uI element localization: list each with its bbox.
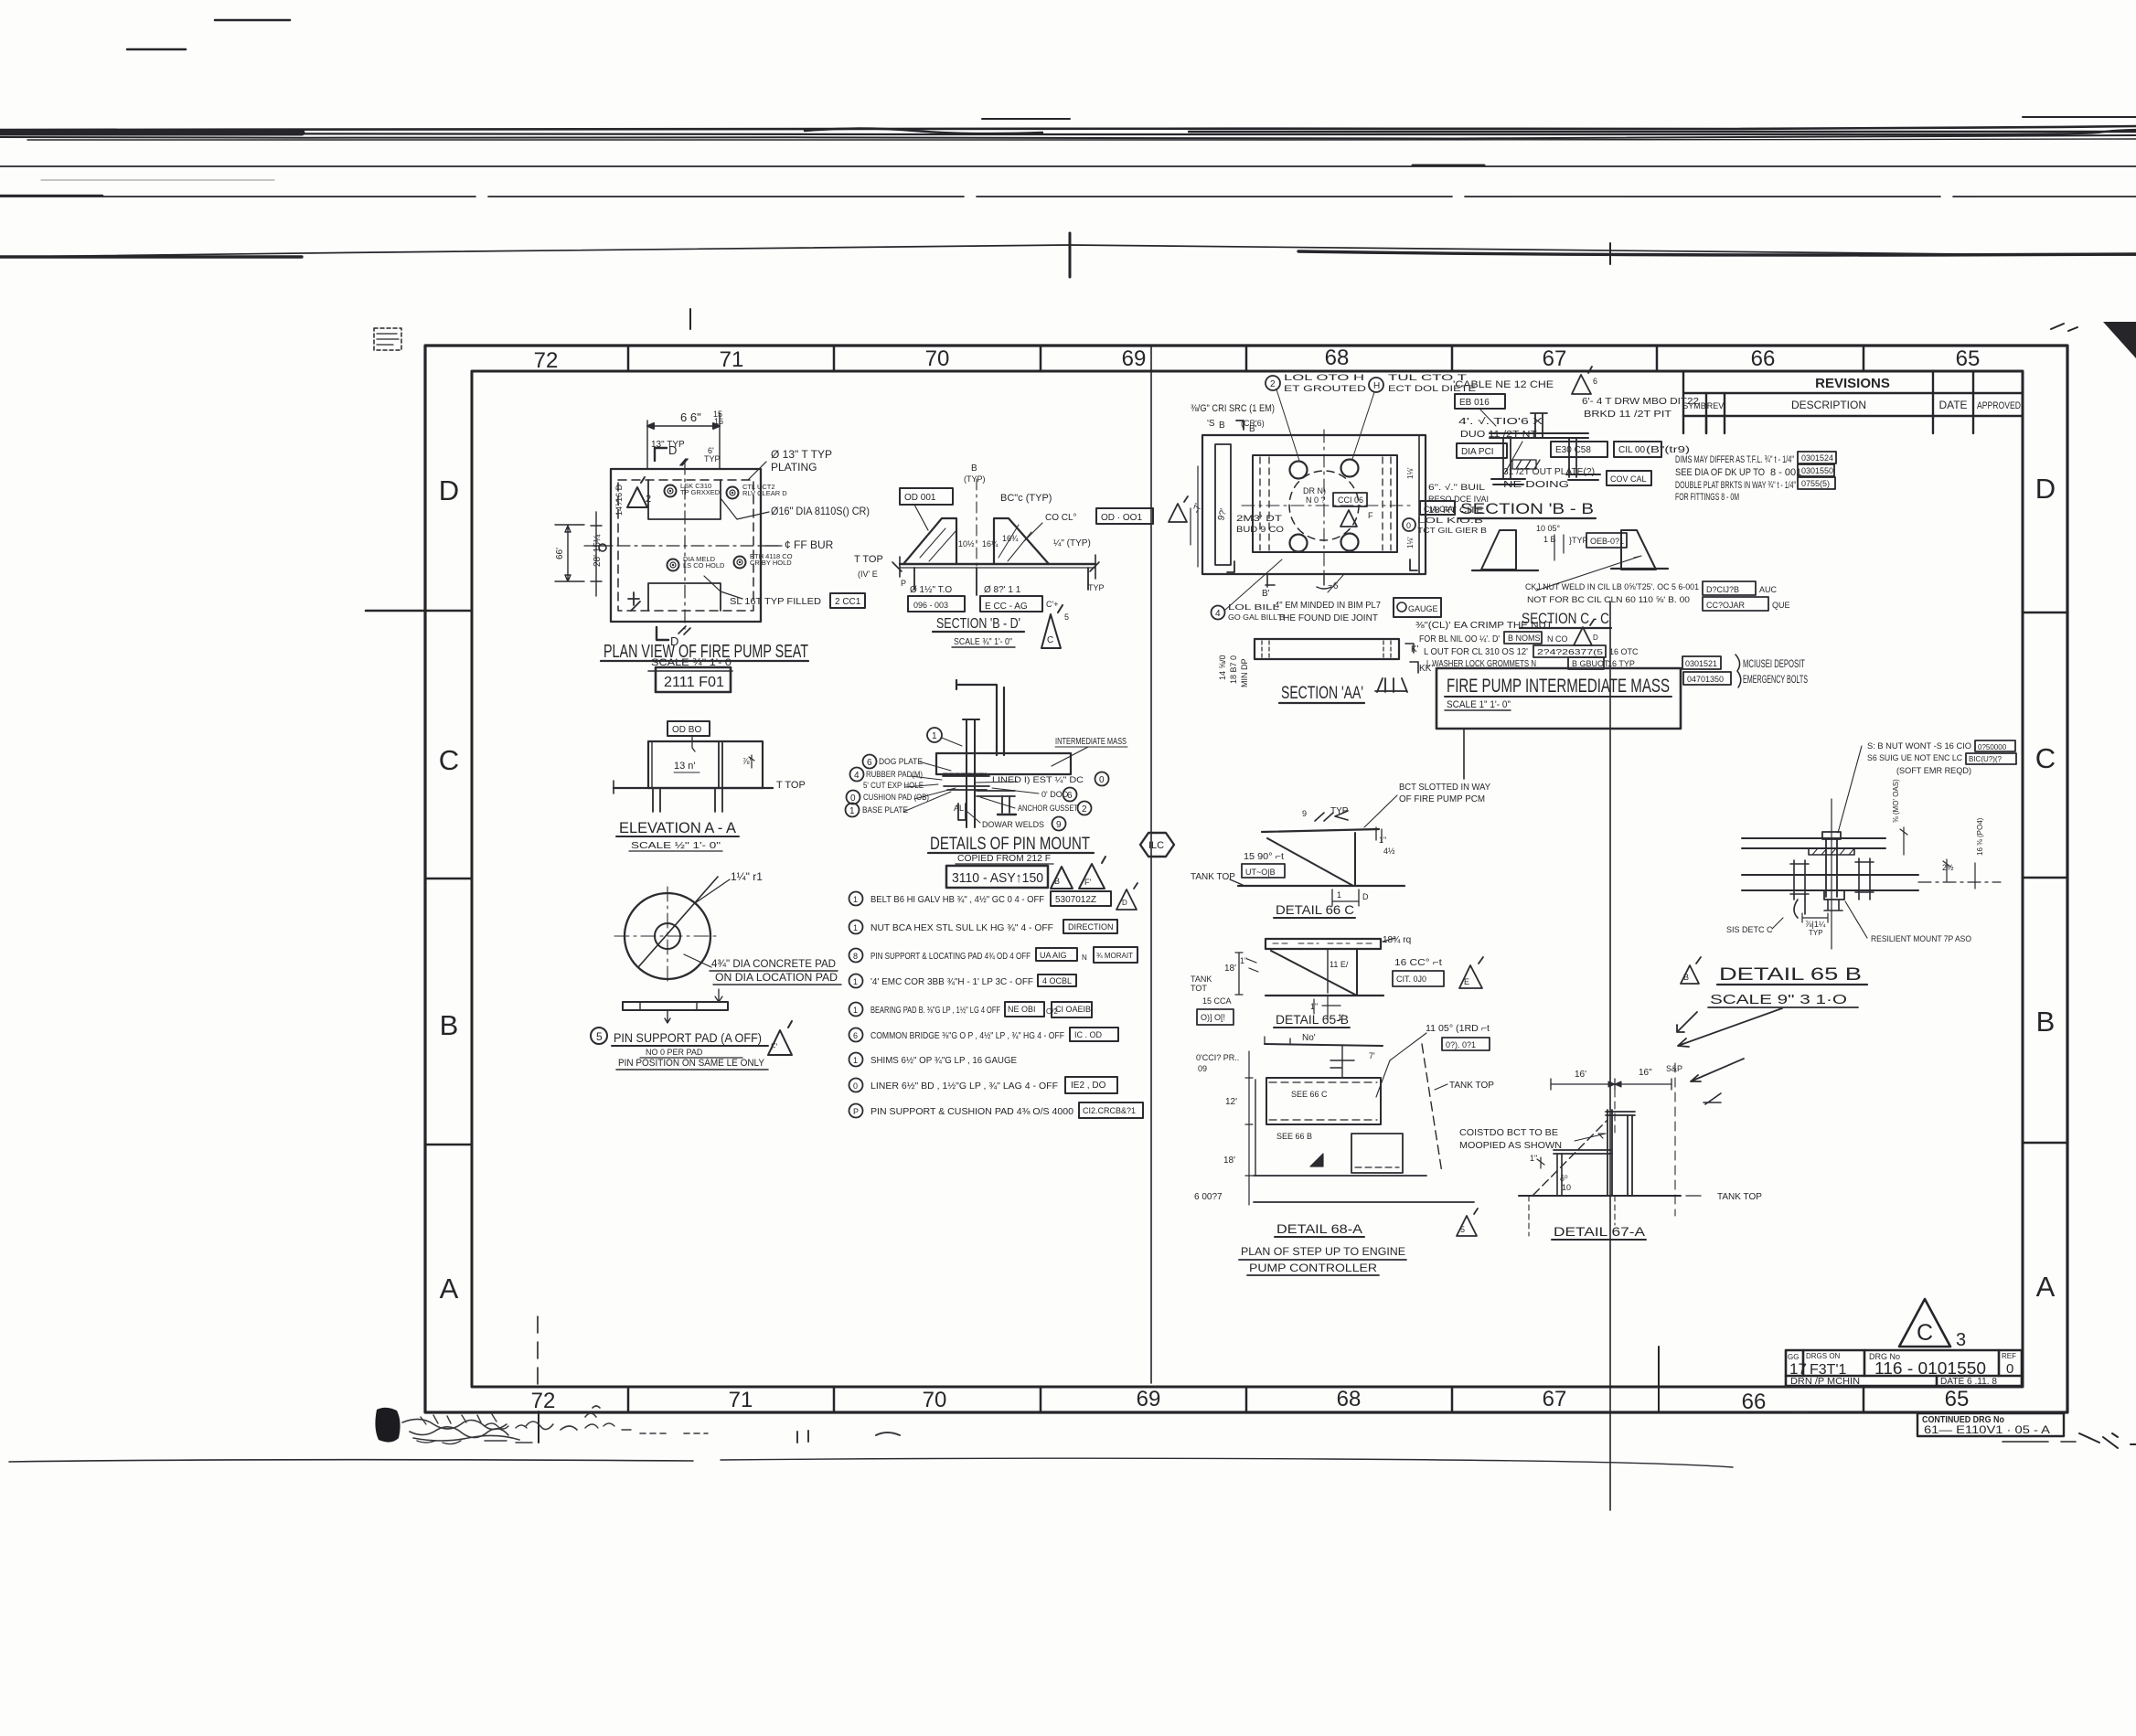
plan view inner dashed outline bbox=[618, 480, 753, 611]
svg-text:16 OTC: 16 OTC bbox=[1609, 647, 1639, 656]
circled 6 left bbox=[863, 755, 877, 769]
aa step marks right bbox=[1405, 644, 1418, 673]
svg-text:2½: 2½ bbox=[1942, 863, 1954, 872]
svg-text:TANK TOP: TANK TOP bbox=[1191, 872, 1235, 882]
svg-text:'CABLE NE 12 CHE: 'CABLE NE 12 CHE bbox=[1453, 379, 1554, 390]
plan view vertical centreline bbox=[684, 462, 686, 629]
svg-text:1: 1 bbox=[853, 923, 858, 932]
svg-text:DOWAR WELDS: DOWAR WELDS bbox=[982, 820, 1044, 829]
svg-text:AL: AL bbox=[954, 804, 964, 813]
bb top texts leader triangle bbox=[1572, 367, 1592, 394]
svg-text:DETAIL 66 C: DETAIL 66 C bbox=[1276, 902, 1354, 917]
warn triangle inside bbox=[1340, 510, 1357, 527]
svg-text:10: 10 bbox=[1562, 1183, 1571, 1192]
section BD ref box left of gusset bbox=[900, 488, 953, 505]
elevation right small dim bbox=[749, 755, 754, 768]
svg-text:CCI 06: CCI 06 bbox=[1338, 495, 1363, 505]
svg-text:67: 67 bbox=[1543, 346, 1567, 371]
svg-text:B: B bbox=[971, 463, 977, 474]
scan streak line C dark left bbox=[0, 195, 102, 197]
svg-text:SCALE 1" 1'- 0": SCALE 1" 1'- 0" bbox=[1447, 699, 1511, 710]
svg-text:MCIUSEI DEPOSIT: MCIUSEI DEPOSIT bbox=[1743, 657, 1805, 670]
d65b vertical bbox=[1356, 949, 1358, 996]
corner weld mark bottom-left bbox=[628, 592, 640, 611]
svg-text:⅜/G" CRI SRC (1 EM): ⅜/G" CRI SRC (1 EM) bbox=[1191, 403, 1275, 414]
svg-text:BC"c (TYP): BC"c (TYP) bbox=[1000, 493, 1052, 504]
svg-text:(B"(tr9): (B"(tr9) bbox=[1646, 445, 1690, 455]
svg-text:18': 18' bbox=[1224, 964, 1236, 974]
svg-text:16¾: 16¾ bbox=[1002, 534, 1019, 543]
svg-text:¾ MORAIT: ¾ MORAIT bbox=[1096, 952, 1133, 960]
title block triangle C3 bbox=[1899, 1299, 1950, 1347]
svg-text:71: 71 bbox=[720, 347, 744, 372]
svg-text:2?4?26377(5: 2?4?26377(5 bbox=[1537, 648, 1604, 656]
svg-text:PIN POSITION ON SAME LE ONL: PIN POSITION ON SAME LE ONLY bbox=[618, 1058, 765, 1069]
bottom band grid ticks bbox=[628, 1387, 1864, 1411]
pin mount legs bbox=[1002, 796, 1009, 813]
svg-text:0301524: 0301524 bbox=[1801, 453, 1833, 463]
cc right gusset bbox=[1621, 530, 1656, 570]
warn triangle left outside bbox=[1169, 496, 1188, 522]
d65B upper bar bbox=[1742, 838, 1885, 848]
svg-text:B: B bbox=[1683, 973, 1689, 982]
svg-text:REF: REF bbox=[2002, 1352, 2016, 1360]
d68a inner rect dashes bbox=[1269, 1082, 1377, 1120]
svg-text:DATE 6 .11. 8: DATE 6 .11. 8 bbox=[1940, 1377, 1997, 1387]
plan view top dimension line 66" bbox=[647, 413, 720, 469]
box 2111 F01 bbox=[656, 667, 731, 692]
svg-text:C'+: C'+ bbox=[1046, 600, 1058, 609]
svg-text:1 B: 1 B bbox=[1543, 535, 1556, 544]
circled right small bbox=[1403, 518, 1415, 531]
grid tick below border at 589 bbox=[538, 1411, 539, 1443]
d68a left edge bbox=[1255, 1080, 1256, 1176]
section BD left end cap bbox=[892, 557, 902, 577]
svg-text:LS CO HOLD: LS CO HOLD bbox=[683, 561, 725, 570]
svg-text:13 n': 13 n' bbox=[674, 761, 696, 772]
svg-text:DETAIL 68-A: DETAIL 68-A bbox=[1276, 1221, 1363, 1236]
svg-text:2: 2 bbox=[1082, 804, 1087, 815]
d67a seat leg bbox=[1557, 1154, 1562, 1195]
d67a centre dashed bbox=[1614, 1090, 1616, 1134]
svg-text:B GBUOT: B GBUOT bbox=[1572, 659, 1609, 668]
parts row 9 circle bbox=[849, 1104, 863, 1118]
svg-text:2 CC1: 2 CC1 bbox=[835, 597, 861, 607]
parts row 6 box bbox=[1070, 1028, 1118, 1041]
svg-text:6: 6 bbox=[867, 758, 872, 768]
scan streak short right upper bbox=[982, 118, 1070, 120]
grid tick dashed below 72 top bbox=[537, 1316, 539, 1387]
svg-text:BIC(U?)(?: BIC(U?)(? bbox=[1969, 755, 2002, 763]
svg-text:16: 16 bbox=[714, 417, 723, 426]
cc ref box bbox=[1586, 533, 1627, 548]
pad side bar centre tick bbox=[665, 1010, 670, 1023]
parts row 9 box bbox=[1079, 1102, 1143, 1118]
pin mount layer hatch bbox=[944, 773, 986, 776]
d66c weld flag bbox=[1315, 811, 1348, 821]
svg-text:116 - 0101550: 116 - 0101550 bbox=[1874, 1359, 1986, 1378]
d65B left leader bbox=[1772, 918, 1783, 929]
bb right foot bbox=[1566, 474, 1600, 480]
cc box row4 bbox=[1568, 657, 1604, 669]
left leader into plate bbox=[584, 545, 611, 547]
svg-text:NOT FOR BC CIL CLN 60 110 ⅝': NOT FOR BC CIL CLN 60 110 ⅝' B. 00 bbox=[1527, 595, 1690, 605]
warn triangle 2 on plan bbox=[627, 477, 647, 507]
svg-text:PIN SUPPORT PAD (A OFF): PIN SUPPORT PAD (A OFF) bbox=[614, 1030, 762, 1045]
d65B lower nut bbox=[1824, 890, 1844, 900]
svg-text:2M3' DT: 2M3' DT bbox=[1236, 514, 1283, 523]
svg-text:D: D bbox=[1593, 634, 1598, 642]
d65B arrow below bbox=[1677, 1012, 1697, 1032]
elevation left inner divider bbox=[651, 741, 653, 788]
section BD hanger bolts below bbox=[914, 568, 1088, 595]
parts row 3 circle bbox=[849, 949, 863, 963]
section BD warn triangle bbox=[1041, 605, 1063, 648]
svg-text:NE DOING: NE DOING bbox=[1503, 480, 1569, 490]
d68a inner rect upper bbox=[1266, 1078, 1381, 1124]
svg-text:PLAN OF STEP UP TO ENGINE: PLAN OF STEP UP TO ENGINE bbox=[1241, 1245, 1405, 1258]
svg-text:BELT B6 HI GALV HB ¾" , 4½": BELT B6 HI GALV HB ¾" , 4½" GC 0 4 - OFF bbox=[870, 894, 1044, 905]
scribble dashes under continued box bbox=[2002, 1441, 2076, 1443]
handwritten 1 above top band bbox=[689, 309, 691, 329]
svg-text:RLV CLEAR D: RLV CLEAR D bbox=[742, 489, 787, 497]
cc dim bracket bbox=[1554, 535, 1564, 560]
svg-text:}TYP: }TYP bbox=[1569, 536, 1588, 545]
svg-text:SL 16T TYP FILLED: SL 16T TYP FILLED bbox=[730, 596, 821, 607]
svg-text:3110 - ASY↑150: 3110 - ASY↑150 bbox=[952, 870, 1043, 886]
aa title underline bbox=[1279, 702, 1364, 704]
svg-text:DETAIL 65 B: DETAIL 65 B bbox=[1719, 965, 1862, 985]
svg-text:SEE DIA OF DK UP TO: SEE DIA OF DK UP TO bbox=[1675, 467, 1765, 478]
d65b base bbox=[1266, 995, 1383, 996]
svg-text:SECTION 'B - D': SECTION 'B - D' bbox=[936, 616, 1020, 632]
scan streak band A dark right bbox=[1189, 131, 2136, 133]
svg-text:0: 0 bbox=[2006, 1361, 2013, 1377]
d65B notes leader bbox=[1838, 746, 1862, 833]
svg-text:10½: 10½ bbox=[958, 539, 975, 548]
circled item 5 bbox=[591, 1028, 607, 1044]
svg-text:UA AIG: UA AIG bbox=[1040, 951, 1067, 960]
svg-text:ET GROUTED: ET GROUTED bbox=[1284, 384, 1367, 393]
svg-text:~6: ~6 bbox=[1328, 581, 1339, 591]
svg-text:66': 66' bbox=[555, 548, 565, 559]
d65B hatched plate bbox=[1809, 848, 1854, 855]
svg-text:1: 1 bbox=[853, 1056, 858, 1065]
assy warn triangle 2 bbox=[1079, 857, 1105, 889]
leader hole dia note bbox=[721, 498, 769, 519]
svg-text:SCALE ¾" 1'- 0": SCALE ¾" 1'- 0" bbox=[954, 637, 1012, 647]
plan view lower pocket bbox=[648, 583, 721, 611]
d67a note leader bbox=[1575, 1134, 1606, 1141]
svg-text:CIL 00: CIL 00 bbox=[1618, 445, 1646, 455]
scan streak band A4 bbox=[27, 139, 2136, 141]
svg-text:S&P: S&P bbox=[1666, 1064, 1682, 1073]
svg-text:10 05°: 10 05° bbox=[1536, 524, 1561, 533]
aa weld symbol bbox=[1375, 678, 1407, 692]
bb beam left leg bbox=[1503, 438, 1511, 479]
cc baselines bbox=[1472, 569, 1668, 570]
scan streak line B bbox=[0, 165, 2136, 167]
d68a leader 11 05 box bbox=[1376, 1033, 1426, 1097]
svg-text:6". √." BUIL: 6". √." BUIL bbox=[1428, 483, 1485, 492]
svg-text:2: 2 bbox=[1270, 379, 1276, 389]
svg-text:K': K' bbox=[1411, 644, 1419, 655]
svg-text:No': No' bbox=[1302, 1033, 1316, 1043]
pin mount pocket AL bbox=[958, 804, 966, 820]
svg-text:GAUGE: GAUGE bbox=[1408, 604, 1438, 613]
cc note boxes right bbox=[1703, 581, 1756, 595]
svg-text:L OUT FOR CL 310 OS 12': L OUT FOR CL 310 OS 12' bbox=[1424, 647, 1528, 657]
svg-text:1: 1 bbox=[853, 1006, 858, 1015]
im plan left dashed strip bbox=[1260, 457, 1269, 550]
svg-text:QUE: QUE bbox=[1772, 601, 1790, 610]
svg-text:1": 1" bbox=[1240, 956, 1247, 965]
d67a front post bbox=[1628, 1115, 1632, 1195]
im plan big dashed circle bbox=[1289, 471, 1359, 540]
svg-text:SEE 66 C: SEE 66 C bbox=[1291, 1090, 1328, 1099]
svg-text:16": 16" bbox=[1639, 1068, 1652, 1078]
section BD baseline tank top bbox=[900, 563, 1095, 565]
d65b left box bbox=[1197, 1009, 1234, 1025]
svg-text:DETAIL 67-A: DETAIL 67-A bbox=[1554, 1224, 1646, 1239]
svg-text:CIT. 0J0: CIT. 0J0 bbox=[1396, 975, 1426, 984]
pin mount leader lines right bbox=[967, 782, 1039, 823]
svg-text:0?50000: 0?50000 bbox=[1978, 743, 2007, 751]
svg-text:11 E/: 11 E/ bbox=[1330, 960, 1349, 969]
aa bar end dashes bbox=[1262, 641, 1391, 657]
svg-text:DRN /P MCHIN: DRN /P MCHIN bbox=[1790, 1377, 1860, 1387]
d67a diagonal brace bbox=[1533, 1120, 1607, 1195]
svg-text:TANK TOP: TANK TOP bbox=[1717, 1192, 1762, 1202]
circled 4 left bbox=[850, 768, 864, 782]
d68a top edge bbox=[1265, 1044, 1383, 1046]
im plan vertical centreline bbox=[1323, 430, 1325, 580]
svg-text:BUD 9 CO: BUD 9 CO bbox=[1236, 525, 1284, 534]
bottom band zone numbers bbox=[531, 1387, 1970, 1414]
d66c bottom dim bbox=[1332, 889, 1359, 906]
svg-text:ILC: ILC bbox=[1148, 840, 1164, 851]
svg-text:DESCRIPTION: DESCRIPTION bbox=[1791, 399, 1866, 411]
svg-text:E: E bbox=[1464, 977, 1469, 986]
assy warn triangle 1 bbox=[1051, 867, 1073, 889]
pad outer circle bbox=[625, 893, 710, 979]
svg-text:C: C bbox=[2035, 742, 2056, 774]
section BD ref box left under bbox=[908, 596, 965, 612]
d68a baseline bbox=[1254, 1175, 1426, 1177]
svg-text:PIN SUPPORT & CUSHION PAD 4⅜ O: PIN SUPPORT & CUSHION PAD 4⅜ O/S 4000 bbox=[870, 1106, 1073, 1117]
top band grid ticks bbox=[628, 346, 1864, 371]
svg-text:ELEVATION A - A: ELEVATION A - A bbox=[619, 819, 737, 836]
d66c tank top tick bbox=[1230, 879, 1243, 885]
parts row 5 circle bbox=[849, 1003, 863, 1017]
section A tick top bbox=[680, 459, 688, 465]
svg-text:T TOP: T TOP bbox=[776, 780, 806, 791]
d65B bolt shaft bbox=[1826, 839, 1837, 897]
top band zone numbers bbox=[534, 346, 1981, 373]
svg-text:6: 6 bbox=[853, 1031, 858, 1040]
im plan horizontal centreline bbox=[1242, 505, 1413, 506]
svg-text:1: 1 bbox=[1337, 890, 1341, 900]
svg-text:66: 66 bbox=[1751, 346, 1776, 371]
scan streak band A3 bbox=[0, 135, 2136, 139]
d65B warn triangle left bbox=[1681, 957, 1701, 984]
parts row 4 circle bbox=[849, 975, 863, 988]
svg-text:TOT: TOT bbox=[1191, 984, 1207, 993]
svg-text:6: 6 bbox=[1067, 791, 1073, 801]
svg-text:B': B' bbox=[1262, 589, 1270, 599]
d67a vertical dim dashed right bbox=[1674, 1063, 1676, 1216]
bb left foot bbox=[1491, 479, 1525, 485]
svg-text:IE2 , DO: IE2 , DO bbox=[1071, 1081, 1106, 1091]
im plan bolt circle TR bbox=[1341, 460, 1359, 477]
svg-text:DOG PLATE: DOG PLATE bbox=[879, 757, 923, 766]
pad note underlines bbox=[710, 971, 841, 985]
svg-text:71: 71 bbox=[729, 1388, 753, 1412]
svg-text:Ø 8?' 1 1: Ø 8?' 1 1 bbox=[984, 585, 1021, 595]
leader ff line bbox=[761, 545, 782, 547]
svg-text:4: 4 bbox=[854, 771, 860, 781]
svg-text:AUC: AUC bbox=[1759, 585, 1778, 594]
svg-text:69: 69 bbox=[1122, 346, 1147, 371]
arrow stroke 1 bbox=[1678, 1008, 1782, 1047]
scan streak short top-left 2 bbox=[127, 48, 186, 51]
parts row 4 box bbox=[1038, 975, 1076, 986]
svg-text:OD BO: OD BO bbox=[672, 725, 701, 735]
svg-text:SIS DETC C: SIS DETC C bbox=[1726, 925, 1773, 934]
d65b bottom dims bbox=[1314, 996, 1340, 1019]
pad horizontal centreline bbox=[614, 935, 721, 937]
svg-text:P: P bbox=[901, 579, 906, 588]
svg-text:COV CAL: COV CAL bbox=[1610, 474, 1647, 484]
svg-text:(TYP): (TYP) bbox=[964, 474, 986, 484]
svg-text:CI OAEIB: CI OAEIB bbox=[1055, 1005, 1091, 1014]
d66c base line bbox=[1238, 885, 1404, 887]
svg-text:0'CCI? PR..: 0'CCI? PR.. bbox=[1196, 1053, 1239, 1062]
svg-text:16 CC° ⌐t: 16 CC° ⌐t bbox=[1394, 958, 1442, 968]
right zone ticks bbox=[2023, 612, 2067, 1143]
svg-text:72: 72 bbox=[531, 1389, 556, 1413]
svg-text:C: C bbox=[1047, 635, 1053, 645]
bottom streak line mid bbox=[721, 1458, 1733, 1467]
plan title underline bbox=[601, 660, 808, 662]
elevation title underline bbox=[616, 836, 739, 837]
svg-text:69: 69 bbox=[1137, 1387, 1161, 1411]
d65b centre post bbox=[1327, 949, 1329, 993]
bolt hole top-left bbox=[665, 485, 677, 497]
ref box CCI-06 bbox=[1333, 493, 1367, 506]
copied from underline bbox=[956, 863, 1053, 865]
d65B right clamp bbox=[1855, 858, 1874, 900]
svg-text:FOR BL NIL OO ¼'. D': FOR BL NIL OO ¼'. D' bbox=[1419, 634, 1500, 644]
svg-text:15 CCA: 15 CCA bbox=[1202, 996, 1232, 1006]
d68a tank top leader bbox=[1435, 1084, 1447, 1090]
svg-text:TANK TOP: TANK TOP bbox=[1449, 1081, 1494, 1091]
cc title underline bbox=[1520, 627, 1611, 629]
svg-text:6'- 4 T DRW MBO DIT22: 6'- 4 T DRW MBO DIT22 bbox=[1582, 397, 1700, 407]
cc long box row3 bbox=[1533, 645, 1606, 657]
cc leader to note bbox=[1536, 556, 1641, 591]
svg-text:1¼" r1: 1¼" r1 bbox=[731, 870, 763, 883]
svg-text:F': F' bbox=[1084, 878, 1091, 887]
svg-text:B NOMS: B NOMS bbox=[1508, 634, 1541, 643]
svg-text:DIMS MAY DIFFER AS T.F.L. ¾": DIMS MAY DIFFER AS T.F.L. ¾" t - 1/4" bbox=[1675, 454, 1794, 465]
svg-text:H: H bbox=[1373, 381, 1380, 391]
svg-text:SCALE ¾" 1'- 0: SCALE ¾" 1'- 0 bbox=[651, 657, 732, 668]
d67a tank top leader right bbox=[1686, 1195, 1701, 1197]
svg-text:70: 70 bbox=[923, 1388, 947, 1412]
bb leader slope bbox=[1505, 442, 1522, 473]
parts row 5 box b bbox=[1052, 1002, 1092, 1017]
svg-text:1": 1" bbox=[1530, 1154, 1537, 1163]
svg-text:INTERMEDIATE MASS: INTERMEDIATE MASS bbox=[1055, 737, 1127, 747]
plan scale underline bbox=[648, 670, 732, 672]
svg-text:Ø 13" T TYP: Ø 13" T TYP bbox=[771, 448, 832, 461]
section BD ref box right upper bbox=[1096, 508, 1153, 524]
svg-text:PIN SUPPORT & LOCATING PAD 4¾: PIN SUPPORT & LOCATING PAD 4¾ OD 4 OFF bbox=[870, 951, 1031, 962]
bolt hole top-right bbox=[727, 487, 739, 499]
fold line vertical 2 bbox=[1609, 602, 1611, 1510]
svg-text:SHIMS 6½" OP ¾"G LP , 16: SHIMS 6½" OP ¾"G LP , 16 GAUGE bbox=[870, 1055, 1017, 1066]
svg-text:1: 1 bbox=[932, 731, 937, 741]
cc left gusset bbox=[1481, 530, 1516, 570]
svg-text:⅞|1¼: ⅞|1¼ bbox=[1805, 920, 1826, 929]
circled 4 bottom left with leader bbox=[1212, 606, 1225, 620]
pad diagonal leader to r1 bbox=[695, 879, 730, 903]
section D bracket top bbox=[655, 448, 667, 461]
d68a lower baseline bbox=[1254, 1201, 1474, 1203]
scan streak faint left bbox=[41, 179, 274, 181]
svg-text:DETAILS OF PIN MOUNT: DETAILS OF PIN MOUNT bbox=[930, 835, 1090, 854]
scan streak line C bbox=[0, 196, 2136, 197]
svg-text:2: 2 bbox=[646, 494, 651, 505]
svg-text:E CC - AG: E CC - AG bbox=[985, 602, 1028, 612]
svg-text:COISTDO BCT TO BE: COISTDO BCT TO BE bbox=[1459, 1128, 1558, 1138]
gauge box bottom bbox=[1394, 598, 1441, 617]
svg-text:9?': 9?' bbox=[1216, 507, 1229, 522]
svg-text:NO 0 PER PAD: NO 0 PER PAD bbox=[646, 1048, 703, 1057]
svg-text:SEE 66 B: SEE 66 B bbox=[1276, 1132, 1312, 1141]
svg-text:OEB-0?1: OEB-0?1 bbox=[1590, 537, 1624, 546]
svg-text:4½: 4½ bbox=[1383, 847, 1395, 856]
svg-text:1⅛': 1⅛' bbox=[1406, 467, 1415, 479]
pin mount title underline bbox=[928, 852, 1094, 854]
svg-text:1⅛': 1⅛' bbox=[1406, 537, 1415, 548]
parts row 5 box a bbox=[1005, 1002, 1044, 1017]
svg-text:NUT BCA HEX STL SUL LK HG ¾": NUT BCA HEX STL SUL LK HG ¾" 4 - OFF bbox=[870, 922, 1053, 933]
svg-text:COPIED FROM 212 F: COPIED FROM 212 F bbox=[957, 854, 1051, 864]
im plan right edge band bbox=[1418, 435, 1420, 574]
tick below 1812 top band bbox=[1658, 1347, 1660, 1412]
d68a top left tick bbox=[1265, 1037, 1290, 1044]
scan streak band A2 bbox=[0, 130, 2136, 135]
d67a top dim line bbox=[1551, 1079, 1671, 1090]
svg-text:1: 1 bbox=[853, 977, 858, 986]
svg-text:CC?OJAR: CC?OJAR bbox=[1706, 601, 1746, 610]
svg-text:E30 C58: E30 C58 bbox=[1555, 445, 1591, 455]
svg-text:EMERGENCY BOLTS: EMERGENCY BOLTS bbox=[1743, 673, 1808, 686]
svg-text:31 /2T OUT PLATE(?): 31 /2T OUT PLATE(?) bbox=[1503, 467, 1595, 477]
revision table bbox=[1683, 371, 2023, 433]
circled 6b right bbox=[1063, 788, 1077, 802]
im plan outer rect bbox=[1202, 435, 1426, 574]
stamp dotted box top-left of frame bbox=[374, 328, 401, 350]
pad vertical centreline bbox=[667, 887, 668, 985]
svg-text:1": 1" bbox=[1310, 1002, 1318, 1011]
d65B note boxes bbox=[1975, 740, 2015, 751]
svg-text:DR N): DR N) bbox=[1303, 486, 1326, 495]
plan view horizontal centreline bbox=[593, 545, 779, 547]
bb ref box DIA-PCI bbox=[1457, 443, 1507, 458]
